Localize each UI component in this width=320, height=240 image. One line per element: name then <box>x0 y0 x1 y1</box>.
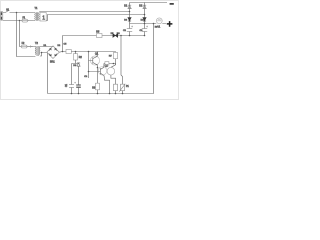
svg-text:BR1: BR1 <box>50 60 55 63</box>
svg-text:1: 1 <box>42 16 45 22</box>
svg-text:mA1: mA1 <box>155 25 161 29</box>
